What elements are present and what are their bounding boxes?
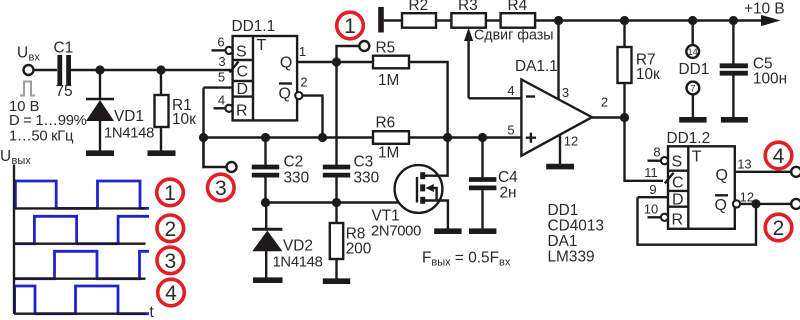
- svg-text:DD1: DD1: [548, 202, 579, 219]
- svg-text:330: 330: [354, 170, 380, 187]
- svg-text:VD2: VD2: [283, 238, 313, 255]
- svg-text:200: 200: [346, 241, 372, 258]
- svg-text:4: 4: [218, 93, 225, 108]
- svg-text:U: U: [17, 45, 28, 62]
- svg-text:2н: 2н: [500, 185, 517, 202]
- svg-text:5: 5: [218, 70, 225, 85]
- svg-text:C: C: [672, 175, 684, 192]
- svg-text:LM339: LM339: [548, 249, 595, 266]
- svg-text:R2: R2: [409, 0, 429, 14]
- svg-text:T: T: [257, 37, 267, 54]
- svg-text:DD1.2: DD1.2: [667, 130, 711, 147]
- svg-text:7: 7: [690, 84, 695, 94]
- svg-text:C4: C4: [498, 169, 518, 186]
- svg-text:Q: Q: [279, 86, 291, 103]
- svg-text:1: 1: [344, 15, 356, 38]
- svg-text:2: 2: [300, 75, 307, 90]
- svg-text:DA1: DA1: [548, 233, 578, 250]
- svg-text:Q: Q: [280, 54, 292, 71]
- svg-text:1: 1: [299, 44, 306, 59]
- svg-text:100н: 100н: [753, 71, 787, 88]
- svg-text:3: 3: [215, 177, 227, 200]
- svg-text:VD1: VD1: [114, 108, 144, 125]
- svg-text:DD1.1: DD1.1: [232, 18, 276, 35]
- svg-text:12: 12: [740, 190, 754, 205]
- svg-text:4: 4: [773, 145, 785, 168]
- svg-text:75: 75: [56, 83, 73, 100]
- svg-text:8: 8: [653, 145, 660, 160]
- svg-text:Q: Q: [716, 167, 728, 184]
- svg-text:t: t: [150, 304, 155, 320]
- svg-text:2: 2: [773, 217, 785, 240]
- svg-text:Q: Q: [715, 197, 727, 214]
- svg-text:1M: 1M: [378, 72, 399, 89]
- svg-text:1N4148: 1N4148: [104, 126, 154, 142]
- svg-text:6: 6: [217, 35, 224, 50]
- svg-text:10: 10: [644, 202, 658, 217]
- svg-text:2N7000: 2N7000: [371, 224, 421, 240]
- svg-text:DD1: DD1: [679, 61, 710, 78]
- svg-text:10к: 10к: [636, 66, 660, 83]
- svg-text:1: 1: [164, 182, 176, 205]
- svg-text:10к: 10к: [172, 111, 196, 128]
- svg-text:R4: R4: [508, 0, 528, 14]
- svg-text:3: 3: [164, 250, 176, 273]
- svg-text:1…50 кГц: 1…50 кГц: [9, 129, 74, 145]
- svg-text:9: 9: [649, 182, 656, 197]
- svg-text:C: C: [237, 64, 249, 81]
- svg-text:CD4013: CD4013: [548, 218, 604, 235]
- svg-text:DA1.1: DA1.1: [515, 58, 558, 75]
- svg-text:R6: R6: [376, 115, 396, 132]
- svg-text:D: D: [672, 192, 684, 209]
- svg-text:11: 11: [644, 165, 658, 180]
- svg-text:4: 4: [165, 282, 177, 305]
- svg-text:3: 3: [562, 85, 569, 100]
- svg-text:R3: R3: [458, 0, 478, 14]
- svg-text:1N4148: 1N4148: [273, 255, 323, 271]
- svg-text:13: 13: [737, 157, 751, 172]
- svg-text:VT1: VT1: [372, 208, 400, 225]
- svg-text:D: D: [237, 81, 249, 98]
- svg-text:3: 3: [218, 54, 225, 69]
- svg-text:Сдвиг фазы: Сдвиг фазы: [474, 28, 554, 44]
- svg-text:R: R: [672, 212, 684, 229]
- svg-text:+10 В: +10 В: [744, 1, 785, 18]
- svg-text:C2: C2: [284, 154, 304, 171]
- svg-text:U: U: [0, 148, 11, 165]
- svg-text:S: S: [236, 43, 247, 60]
- svg-text:S: S: [672, 154, 683, 171]
- svg-text:R5: R5: [376, 40, 396, 57]
- svg-text:вх: вх: [29, 52, 41, 64]
- svg-text:330: 330: [284, 170, 310, 187]
- svg-text:14: 14: [688, 47, 698, 57]
- svg-text:2: 2: [601, 95, 608, 110]
- svg-text:T: T: [692, 149, 702, 166]
- svg-text:C1: C1: [54, 40, 74, 57]
- svg-text:4: 4: [507, 83, 514, 98]
- svg-text:2: 2: [164, 218, 176, 241]
- svg-text:12: 12: [564, 134, 578, 149]
- svg-text:C3: C3: [354, 154, 374, 171]
- svg-text:5: 5: [507, 123, 514, 138]
- svg-text:1M: 1M: [378, 145, 399, 162]
- svg-text:D = 1…99%: D = 1…99%: [9, 113, 87, 129]
- svg-text:R: R: [236, 103, 248, 120]
